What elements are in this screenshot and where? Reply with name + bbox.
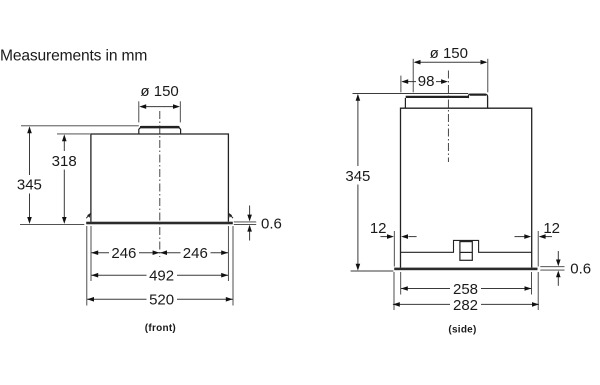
svg-text:282: 282 [453,297,478,314]
svg-text:345: 345 [345,168,370,185]
side hood body outline [401,108,532,267]
side ceiling line left (bottom extension for 345) [351,270,394,272]
svg-text:246: 246 [183,245,208,262]
front ceiling/extension lines right of plate (0.6) [234,221,256,223]
dimension 345 front: dimension line with arrows [29,128,31,175]
svg-text:345: 345 [17,177,42,194]
front hood body outline [91,134,229,222]
svg-text:ø 150: ø 150 [430,45,468,62]
extension lines below plate (282 pair) [393,272,395,310]
dimension 246 right: line and arrows [160,252,228,254]
svg-text:0.6: 0.6 [570,260,591,277]
dimension ø150 front: dimension line with arrows [141,106,178,108]
front ceiling line left (bottom extension for 345/318) [20,223,84,225]
extension lines below plate (258 pair) [400,272,402,295]
dimension 520: line and arrows [87,298,233,300]
side duct collar left edge [404,98,406,108]
dimension 282: line and arrows [393,303,539,305]
dimension 12 left: extension line [393,231,395,267]
dimension 318 front: top extension line [57,133,90,135]
dimension 12 left: arrows [380,236,388,238]
side centerline [447,71,449,163]
dimension 345 front: top extension line [21,125,139,127]
side bottom plate 0.6 panel [394,268,537,271]
front duct collar [139,127,181,134]
dimension ø150 front: extension lines [138,101,140,122]
side duct damper lip [468,94,487,108]
dimension 0.6 front: arrows [249,206,251,217]
side duct collar top edge thick [406,96,469,98]
dimension ø150 side: dimension line with arrows [415,61,486,63]
extension lines below plate (492/246 inner pair) [90,226,92,281]
dimension 0.6 side: arrows [557,251,559,261]
dimension 98: dimension line with arrows [403,81,417,83]
dimension 318 front: dimension line with arrows [63,136,65,151]
dimension 98: extension line [400,76,402,93]
side extension lines right of plate (0.6) [540,266,564,268]
dimension 12 right: arrows [515,236,525,238]
svg-text:258: 258 [453,281,478,298]
front right corner flag [231,216,233,219]
dimension ø150 side: extension lines [412,59,414,93]
dimension 492: line and arrows [91,274,228,276]
svg-text:(front): (front) [145,323,176,334]
svg-text:12: 12 [543,220,560,237]
dimension 258: line and arrows [401,288,532,290]
extension lines below plate (520 outer pair) [86,226,88,306]
dimension 345 side: top extension line [353,93,469,95]
svg-text:12: 12 [370,220,387,237]
svg-text:(side): (side) [448,324,476,335]
front left corner flag [86,216,88,219]
svg-text:520: 520 [149,292,174,309]
front bottom plate 0.6 panel [86,222,233,225]
svg-text:98: 98 [418,73,435,90]
side latch clip [460,242,472,261]
dimension 246 left: line and arrows [91,252,159,254]
svg-text:0.6: 0.6 [261,216,282,233]
svg-text:ø 150: ø 150 [140,83,178,100]
dimension 12 right: extension line [537,231,539,267]
front duct collar top edge thick [140,126,179,128]
front centerline [159,111,161,257]
side inner liner with latch notch [401,240,532,252]
svg-text:Measurements in mm: Measurements in mm [0,48,147,65]
dimension 345 side: dimension line with arrows [357,95,359,166]
svg-text:492: 492 [149,268,174,285]
svg-text:318: 318 [52,153,77,170]
svg-text:246: 246 [111,245,136,262]
